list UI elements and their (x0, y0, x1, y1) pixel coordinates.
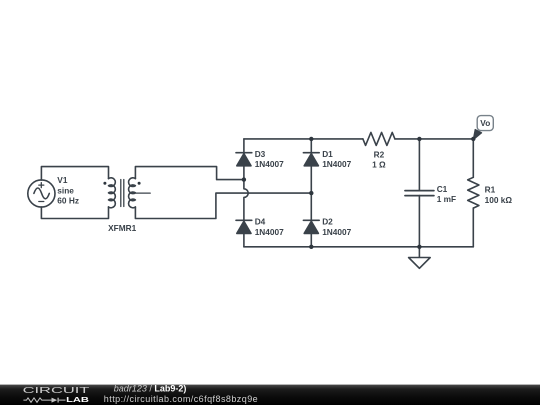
resistor R2 1 ohm (363, 132, 395, 169)
wire secondary top to left mid node (135, 167, 244, 180)
svg-text:D2: D2 (322, 217, 333, 227)
svg-text:1N4007: 1N4007 (322, 227, 351, 237)
svg-text:100 kΩ: 100 kΩ (485, 195, 513, 205)
svg-text:R1: R1 (485, 185, 496, 195)
secondary center tap stub (135, 192, 150, 194)
transformer XFMR1 secondary coil (129, 178, 136, 208)
node bottom rail D2 junction (309, 245, 313, 249)
secondary phase dot (138, 182, 141, 185)
wire top rail (244, 138, 473, 140)
svg-text:CIRCUIT: CIRCUIT (23, 385, 90, 395)
diode D1 1N4007 (303, 149, 351, 169)
node Vo flag (473, 116, 493, 140)
svg-text:V1: V1 (57, 175, 68, 185)
node Vo junction (471, 137, 475, 141)
node left-mid junction (242, 177, 246, 181)
wire V1 bottom to primary (41, 207, 108, 219)
wire left branch with hop (244, 139, 248, 247)
svg-text:D4: D4 (255, 217, 266, 227)
node top rail D1 junction (309, 137, 313, 141)
svg-text:1N4007: 1N4007 (255, 159, 284, 169)
svg-text:1 Ω: 1 Ω (372, 160, 386, 170)
svg-text:1N4007: 1N4007 (322, 159, 351, 169)
ground (409, 247, 431, 268)
svg-text:R2: R2 (374, 149, 385, 159)
voltage source V1 (28, 180, 55, 207)
resistor R1 100 kOhm (468, 139, 513, 247)
svg-text:http://circuitlab.com/c6fqf8s8: http://circuitlab.com/c6fqf8s8bzq9e (104, 394, 258, 404)
svg-text:1N4007: 1N4007 (255, 227, 284, 237)
svg-text:60 Hz: 60 Hz (57, 196, 79, 206)
svg-text:LAB: LAB (66, 395, 89, 404)
diode D2 1N4007 (303, 217, 351, 237)
capacitor C1 1 mF (405, 139, 456, 247)
wire V1 top to primary (41, 167, 108, 181)
wire bottom rail (244, 246, 473, 248)
transformer XFMR1 core (121, 180, 124, 207)
svg-text:D1: D1 (322, 149, 333, 159)
wire secondary bottom to right mid node (135, 193, 311, 218)
diode D3 1N4007 (236, 149, 284, 169)
primary phase dot (103, 182, 106, 185)
node bottom rail ground junction (417, 245, 421, 249)
diode D4 1N4007 (236, 217, 284, 237)
footer bar (0, 385, 540, 405)
svg-text:sine: sine (57, 185, 74, 195)
node right-mid junction (309, 191, 313, 195)
svg-text:D3: D3 (255, 149, 266, 159)
transformer XFMR1 primary coil (109, 178, 116, 208)
svg-text:Vo: Vo (480, 118, 490, 128)
svg-text:C1: C1 (437, 184, 448, 194)
logo resistor-diode glyph (23, 398, 65, 403)
svg-text:XFMR1: XFMR1 (108, 223, 137, 233)
svg-text:badr123 / Lab9-2): badr123 / Lab9-2) (114, 383, 187, 393)
node top rail C1 junction (417, 137, 421, 141)
svg-text:1 mF: 1 mF (437, 194, 456, 204)
wire right branch (310, 139, 312, 247)
